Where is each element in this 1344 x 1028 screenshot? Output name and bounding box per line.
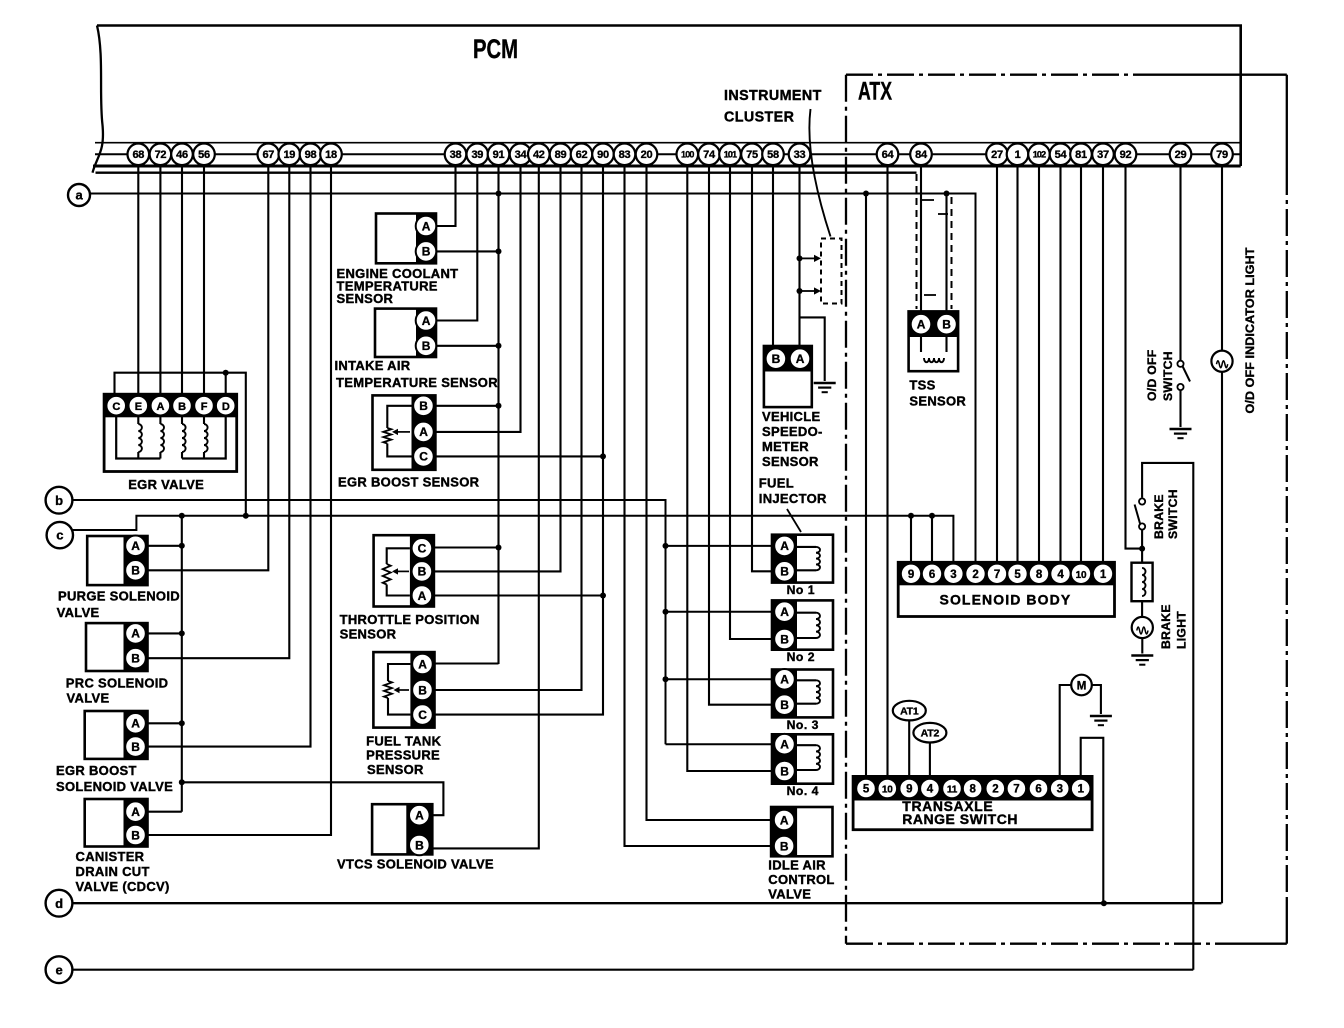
svg-text:64: 64 [882, 149, 895, 161]
svg-text:54: 54 [1055, 149, 1068, 161]
svg-text:METER: METER [762, 439, 809, 454]
svg-text:3: 3 [950, 569, 956, 581]
svg-text:PRC SOLENOID: PRC SOLENOID [66, 676, 169, 691]
svg-text:EGR BOOST SENSOR: EGR BOOST SENSOR [338, 474, 480, 489]
svg-text:7: 7 [994, 569, 1000, 581]
svg-text:83: 83 [619, 149, 631, 161]
svg-text:A: A [780, 605, 789, 619]
svg-text:92: 92 [1120, 149, 1132, 161]
svg-text:102: 102 [1033, 149, 1046, 159]
svg-text:37: 37 [1097, 149, 1109, 161]
svg-text:No 1: No 1 [787, 583, 815, 597]
svg-text:INSTRUMENT: INSTRUMENT [724, 88, 822, 104]
svg-text:VALVE (CDCV): VALVE (CDCV) [76, 879, 170, 894]
svg-text:LIGHT: LIGHT [1175, 611, 1189, 649]
svg-text:4: 4 [1057, 569, 1064, 581]
svg-text:20: 20 [641, 149, 653, 161]
svg-text:F: F [201, 401, 208, 413]
svg-text:58: 58 [767, 149, 779, 161]
svg-text:B: B [178, 401, 186, 413]
svg-text:19: 19 [283, 149, 295, 161]
svg-text:A: A [131, 539, 140, 553]
svg-text:2: 2 [972, 569, 978, 581]
svg-text:81: 81 [1075, 149, 1087, 161]
svg-text:1: 1 [1015, 149, 1021, 161]
svg-text:SENSOR: SENSOR [340, 627, 397, 642]
svg-text:46: 46 [176, 149, 188, 161]
svg-text:DRAIN CUT: DRAIN CUT [76, 864, 150, 879]
svg-text:A: A [422, 219, 431, 233]
svg-text:SOLENOID BODY: SOLENOID BODY [940, 592, 1072, 608]
svg-text:34: 34 [515, 149, 528, 161]
svg-text:TEMPERATURE SENSOR: TEMPERATURE SENSOR [336, 375, 498, 390]
svg-text:B: B [418, 683, 427, 697]
svg-text:29: 29 [1175, 149, 1187, 161]
svg-text:27: 27 [991, 149, 1003, 161]
svg-text:VEHICLE: VEHICLE [762, 409, 820, 424]
svg-text:VALVE: VALVE [57, 605, 100, 620]
svg-text:EGR VALVE: EGR VALVE [128, 477, 204, 492]
svg-text:B: B [415, 838, 424, 852]
svg-text:PRESSURE: PRESSURE [366, 748, 440, 763]
svg-text:9: 9 [908, 569, 914, 581]
svg-text:6: 6 [929, 569, 935, 581]
svg-text:FUEL TANK: FUEL TANK [366, 733, 441, 748]
svg-text:A: A [131, 805, 140, 819]
svg-text:CANISTER: CANISTER [76, 849, 145, 864]
svg-text:D: D [222, 401, 230, 413]
svg-text:A: A [780, 813, 789, 827]
svg-text:B: B [780, 698, 789, 712]
svg-text:B: B [422, 339, 431, 353]
svg-text:M: M [1077, 680, 1086, 692]
svg-text:74: 74 [703, 149, 716, 161]
svg-text:B: B [780, 632, 789, 646]
svg-text:c: c [56, 528, 63, 543]
svg-text:100: 100 [681, 149, 694, 159]
svg-text:SWITCH: SWITCH [1161, 351, 1175, 401]
svg-text:BRAKE: BRAKE [1159, 604, 1173, 649]
svg-text:FUEL: FUEL [759, 476, 794, 491]
svg-text:No. 3: No. 3 [787, 718, 819, 732]
svg-text:98: 98 [305, 149, 317, 161]
svg-text:72: 72 [155, 149, 167, 161]
svg-text:10: 10 [882, 785, 893, 796]
svg-text:7: 7 [1013, 784, 1019, 796]
svg-text:A: A [780, 738, 789, 752]
svg-text:C: C [418, 708, 427, 722]
svg-text:B: B [131, 828, 140, 842]
svg-text:PURGE SOLENOID: PURGE SOLENOID [58, 589, 180, 604]
svg-text:TSS: TSS [909, 377, 935, 392]
svg-text:1: 1 [1078, 784, 1085, 796]
svg-text:62: 62 [576, 149, 588, 161]
svg-text:1: 1 [1100, 569, 1107, 581]
svg-text:INTAKE AIR: INTAKE AIR [335, 358, 411, 373]
svg-text:ATX: ATX [858, 78, 892, 106]
svg-text:89: 89 [555, 149, 567, 161]
svg-text:A: A [157, 401, 165, 413]
svg-text:A: A [780, 539, 789, 553]
svg-text:2: 2 [992, 784, 998, 796]
svg-text:101: 101 [724, 149, 737, 159]
svg-text:67: 67 [262, 149, 274, 161]
svg-text:B: B [780, 839, 789, 853]
svg-text:90: 90 [597, 149, 609, 161]
svg-text:B: B [772, 352, 781, 366]
svg-text:IDLE AIR: IDLE AIR [768, 858, 826, 873]
svg-text:B: B [131, 652, 140, 666]
svg-text:C: C [112, 401, 120, 413]
svg-text:CLUSTER: CLUSTER [724, 110, 795, 126]
svg-text:No 2: No 2 [787, 650, 815, 664]
svg-text:B: B [780, 565, 789, 579]
svg-text:3: 3 [1057, 784, 1063, 796]
svg-text:A: A [419, 425, 428, 439]
svg-text:11: 11 [947, 785, 958, 796]
svg-text:A: A [415, 809, 424, 823]
svg-text:6: 6 [1035, 784, 1041, 796]
svg-text:O/D OFF INDICATOR LIGHT: O/D OFF INDICATOR LIGHT [1244, 248, 1257, 414]
svg-text:A: A [418, 589, 427, 603]
svg-text:VTCS SOLENOID VALVE: VTCS SOLENOID VALVE [337, 857, 494, 872]
svg-text:RANGE SWITCH: RANGE SWITCH [902, 811, 1018, 827]
svg-text:A: A [917, 318, 926, 332]
svg-text:b: b [55, 493, 63, 508]
svg-text:SPEEDO-: SPEEDO- [762, 424, 823, 439]
svg-text:68: 68 [132, 149, 144, 161]
svg-text:a: a [75, 188, 83, 203]
svg-text:A: A [131, 717, 140, 731]
svg-text:EGR BOOST: EGR BOOST [56, 763, 137, 778]
svg-text:A: A [422, 314, 431, 328]
svg-text:75: 75 [746, 149, 758, 161]
svg-text:PCM: PCM [473, 34, 518, 64]
svg-text:CONTROL: CONTROL [768, 872, 834, 887]
svg-text:AT2: AT2 [921, 728, 940, 740]
svg-text:SENSOR: SENSOR [762, 454, 819, 469]
svg-text:INJECTOR: INJECTOR [759, 491, 827, 506]
svg-text:18: 18 [325, 149, 337, 161]
svg-text:No. 4: No. 4 [787, 784, 819, 798]
svg-text:56: 56 [198, 149, 210, 161]
svg-text:5: 5 [863, 784, 870, 796]
svg-text:AT1: AT1 [900, 705, 919, 717]
svg-text:42: 42 [533, 149, 545, 161]
svg-text:SENSOR: SENSOR [367, 762, 424, 777]
svg-text:B: B [780, 764, 789, 778]
svg-text:SENSOR: SENSOR [337, 291, 394, 306]
svg-text:91: 91 [493, 149, 505, 161]
svg-text:C: C [418, 542, 427, 556]
svg-text:E: E [135, 401, 142, 413]
svg-text:SOLENOID VALVE: SOLENOID VALVE [56, 779, 173, 794]
svg-text:VALVE: VALVE [67, 691, 110, 706]
svg-text:84: 84 [915, 149, 928, 161]
svg-text:SENSOR: SENSOR [909, 393, 966, 408]
svg-text:SWITCH: SWITCH [1166, 489, 1180, 539]
svg-text:8: 8 [1036, 569, 1043, 581]
svg-text:B: B [418, 565, 427, 579]
svg-text:A: A [131, 627, 140, 641]
svg-text:d: d [55, 896, 63, 911]
svg-text:B: B [419, 399, 428, 413]
svg-text:39: 39 [471, 149, 483, 161]
svg-text:A: A [796, 352, 805, 366]
svg-text:38: 38 [450, 149, 462, 161]
svg-text:33: 33 [794, 149, 806, 161]
svg-text:B: B [131, 740, 140, 754]
svg-text:e: e [55, 962, 62, 977]
svg-text:C: C [419, 450, 428, 464]
svg-text:THROTTLE POSITION: THROTTLE POSITION [340, 612, 480, 627]
svg-text:VALVE: VALVE [768, 887, 811, 902]
svg-text:B: B [942, 318, 951, 332]
svg-text:O/D OFF: O/D OFF [1145, 349, 1159, 401]
svg-text:9: 9 [906, 784, 912, 796]
svg-text:10: 10 [1076, 570, 1087, 581]
svg-text:A: A [780, 673, 789, 687]
svg-text:B: B [422, 245, 431, 259]
svg-text:B: B [131, 564, 140, 578]
svg-text:8: 8 [969, 784, 976, 796]
svg-text:4: 4 [927, 784, 934, 796]
svg-text:5: 5 [1014, 569, 1021, 581]
svg-text:BRAKE: BRAKE [1152, 494, 1166, 539]
svg-text:79: 79 [1216, 149, 1228, 161]
svg-text:A: A [418, 657, 427, 671]
